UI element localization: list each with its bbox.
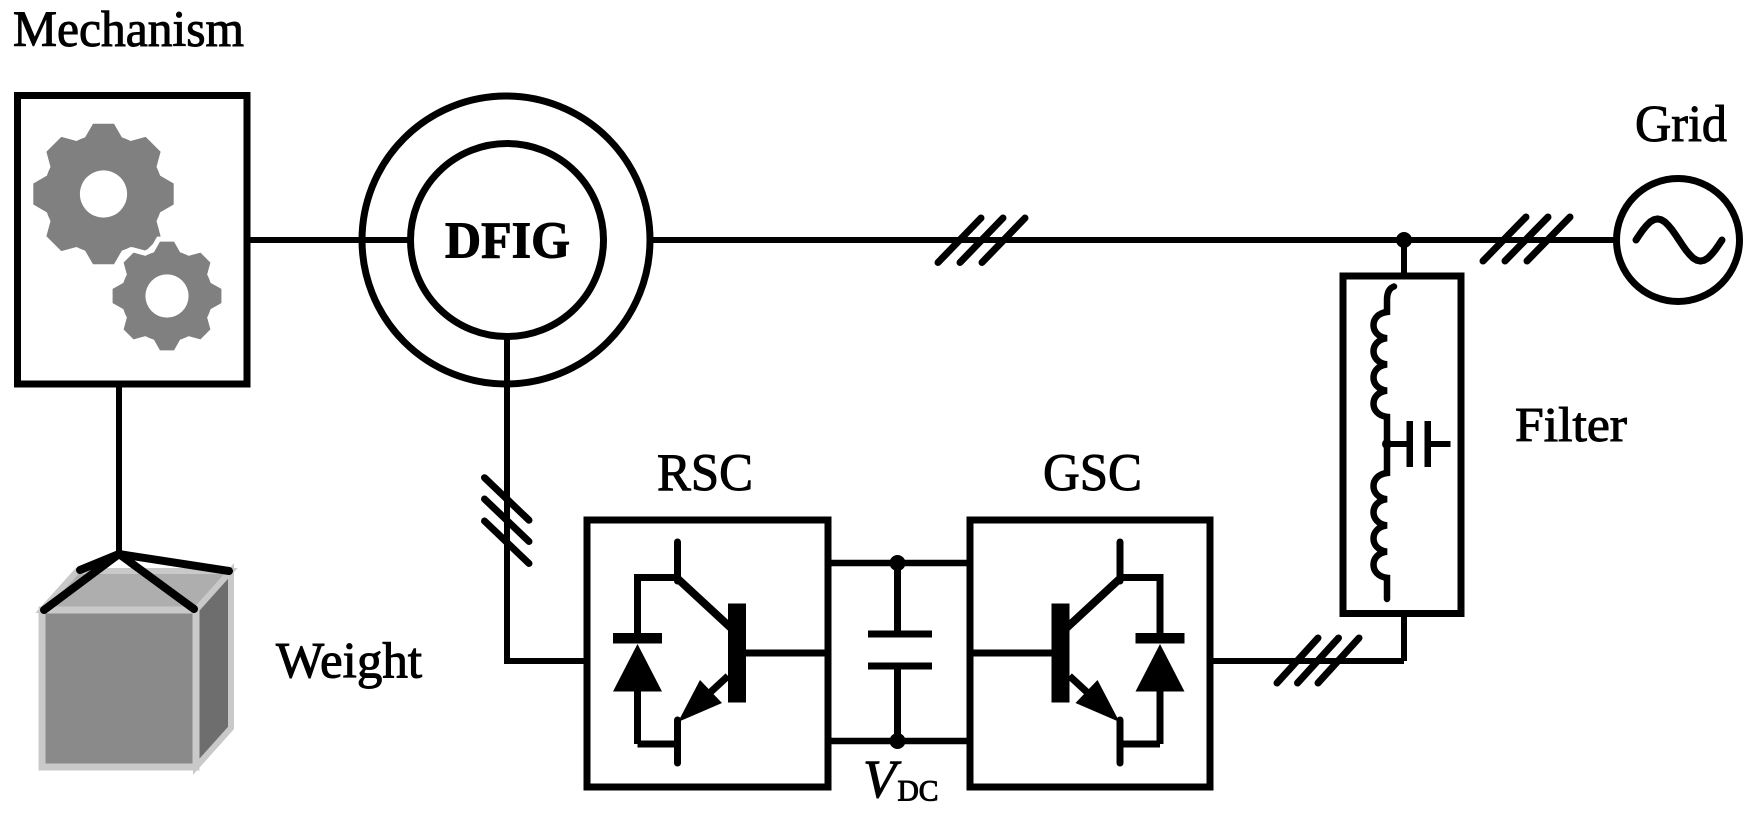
diode cathode bar [613, 633, 662, 644]
three-phase slashes on GSC-filter wire [1277, 638, 1359, 683]
node dot top rail [890, 555, 906, 571]
wire junction to filter box [1401, 240, 1407, 275]
wire filter bottom down [1401, 614, 1407, 662]
svg-text:DFIG: DFIG [445, 213, 570, 270]
GSC output wire [1209, 658, 1404, 664]
svg-text:DC: DC [898, 775, 939, 808]
cathode lead [634, 574, 641, 634]
filter inductor coil [1374, 287, 1395, 600]
filter capacitor plate 1 [1407, 421, 1414, 467]
three-phase slashes on stator wire [938, 218, 1025, 263]
anode lead [634, 690, 641, 744]
emitter lead [674, 720, 681, 763]
grid sine wave [1636, 219, 1722, 261]
DC link bottom rail [825, 738, 974, 745]
filter capacitor stub [1431, 441, 1451, 447]
filter capacitor branch wire [1387, 441, 1407, 447]
GSC box [970, 520, 1210, 787]
IGBT bar [728, 604, 746, 703]
svg-text:Grid: Grid [1635, 96, 1727, 153]
mechanism box [18, 96, 248, 385]
rotor wire to RSC [504, 658, 587, 664]
node junction dot at filter tap [1396, 232, 1412, 248]
gear large [33, 124, 173, 264]
sling line to front-left corner [44, 554, 119, 610]
wire mechanism to weight sling [116, 384, 122, 556]
svg-text:Filter: Filter [1515, 397, 1627, 452]
DC capacitor bottom lead [894, 668, 901, 741]
svg-text:GSC: GSC [1043, 444, 1142, 502]
diode triangle [613, 644, 662, 692]
DC link top rail [825, 560, 974, 567]
svg-text:Mechanism: Mechanism [13, 2, 244, 58]
svg-text:Weight: Weight [276, 634, 422, 690]
emitter diagonal [690, 676, 728, 711]
sling line to back-left corner [80, 554, 119, 570]
filter node dot [1382, 439, 1392, 449]
filter capacitor plate 2 [1425, 421, 1432, 467]
collector diagonal [678, 579, 731, 628]
svg-text:RSC: RSC [657, 444, 753, 502]
top connector [638, 574, 678, 581]
stator wire to grid [650, 237, 1614, 243]
emitter arrowhead [678, 680, 722, 722]
filter box [1343, 276, 1461, 614]
collector lead [674, 542, 681, 581]
gear small [110, 239, 224, 353]
mid output line [746, 650, 825, 657]
wire filter to GSC [1209, 658, 1404, 664]
node dot bottom rail [890, 733, 906, 749]
DC capacitor bottom plate [868, 663, 932, 670]
three-phase slashes on rotor wire [485, 478, 530, 564]
weight cube top face [42, 571, 231, 610]
IGBT with diode (GSC, mirrored) [973, 542, 1185, 763]
DC capacitor top plate [868, 631, 932, 638]
wire mechanism to DFIG [247, 237, 413, 243]
weight cube right face [196, 571, 231, 767]
DFIG outer circle (stator) [362, 96, 650, 384]
DC capacitor top lead [894, 563, 901, 632]
bottom connector [638, 741, 678, 748]
three-phase slashes on grid wire [1483, 217, 1570, 261]
rotor wire DFIG down [504, 337, 510, 661]
sling line to back-right corner [119, 554, 229, 571]
weight cube front face [42, 610, 196, 767]
grid source circle [1617, 179, 1740, 302]
RSC box [587, 520, 828, 787]
IGBT with diode (RSC) [613, 542, 825, 763]
sling line to front-right corner [119, 554, 194, 609]
DFIG inner circle (rotor) [411, 144, 604, 337]
